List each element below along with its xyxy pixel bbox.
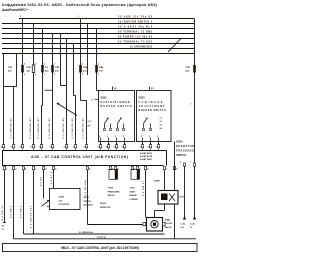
svg-text:Y1B2: Y1B2	[108, 188, 114, 190]
svg-text:4 A1B7 W205: 4 A1B7 W205	[140, 152, 152, 155]
control unit top pin 5 at x66.5	[65, 145, 67, 148]
wire down x194 with arrow	[194, 166, 196, 219]
svg-text:0.5 SW/GE 40: 0.5 SW/GE 40	[29, 118, 32, 139]
power bus line 5	[2, 38, 194, 40]
svg-text:a2 -: a2 -	[160, 121, 164, 123]
interrupt arrow top right	[168, 39, 181, 53]
box1 bottom pin x124.5	[124, 138, 126, 142]
svg-text:9В10 – 97 CAB CONTROL UNIT (p: 9В10 – 97 CAB CONTROL UNIT (p/n JD4 1097…	[61, 246, 139, 250]
svg-text:F1B: F1B	[186, 67, 191, 69]
svg-text:6: 6	[54, 74, 55, 76]
svg-text:4: 4	[98, 63, 99, 66]
solenoid valve Y1B1	[131, 169, 140, 179]
power bus line 8	[2, 53, 194, 55]
control unit bottom pin 9 at x43.5	[42, 167, 44, 170]
svg-text:2nd: 2nd	[59, 200, 64, 202]
box2 rocker contact	[143, 124, 145, 129]
svg-text:1 W: 1 W	[87, 125, 91, 127]
svg-text:Y1B1: Y1B1	[130, 188, 136, 190]
wire drop x3.5	[3, 54, 5, 145]
svg-text:0.5 SW/GE 40: 0.5 SW/GE 40	[37, 118, 40, 139]
valve Y1B2 wires	[110, 168, 112, 170]
svg-text:3: 3	[157, 136, 158, 138]
svg-text:0.5 GE: 0.5 GE	[41, 176, 43, 186]
control unit bottom pin 3 at x13.5	[12, 167, 14, 170]
svg-text:0.5 SW/GE 40a: 0.5 SW/GE 40a	[79, 231, 94, 234]
switch box S1x2 2nd position	[50, 189, 81, 210]
relay K1 box	[158, 191, 178, 205]
wire drop x52.5 (fused)	[52, 34, 54, 145]
wire drop x66.5	[66, 39, 68, 145]
wire drop x42.5 jog to 41.5	[42, 29, 44, 106]
box2 top pin tick	[149, 87, 151, 91]
control unit top pin 2 at x22.5	[21, 145, 23, 148]
switch box S1B2 RADIO/BLOWER ROCKER SWITCH	[99, 91, 135, 142]
control unit A1B top edge	[2, 150, 167, 152]
box1 bottom pin x100.5	[100, 138, 102, 142]
svg-text:2V A-SEAT 40a BL4: 2V A-SEAT 40a BL4	[118, 25, 153, 28]
bottom bus wire y238.8	[14, 238, 197, 240]
control unit bottom pin 7 at x33.5	[32, 167, 34, 170]
svg-text:PRESSURE: PRESSURE	[108, 191, 121, 193]
svg-text:F1B: F1B	[83, 67, 88, 69]
svg-text:F2B: F2B	[27, 67, 32, 69]
svg-text:2: 2	[99, 136, 100, 138]
control unit bottom pin 1 at x132.5	[131, 167, 133, 170]
box1 top pin tick	[112, 87, 114, 91]
wire drop x87.5	[87, 24, 89, 76]
control unit bottom pin 7 at x164.5	[163, 167, 165, 170]
box2 bottom pin x158.5	[158, 138, 160, 142]
switch contact S12	[42, 200, 50, 206]
control unit A1B bottom edge	[2, 165, 164, 167]
box2 bottom pin x150.5	[150, 138, 152, 142]
wire down x87.5 to valve unit	[87, 170, 89, 225]
control unit top pin 6 at x13.5	[12, 145, 14, 148]
fuse F48	[95, 65, 98, 73]
control unit bottom pin 8 at x115.5	[114, 167, 116, 170]
svg-text:3: 3	[141, 136, 142, 138]
svg-text:PACK: PACK	[100, 202, 106, 205]
wire down x13.5	[13, 170, 15, 239]
svg-text:S1B4: S1B4	[176, 139, 183, 143]
svg-text:FAN/MAKE: FAN/MAKE	[139, 101, 163, 104]
box1 left pin tick	[95, 99, 99, 101]
svg-text:5V TERMINAL 75 GE2: 5V TERMINAL 75 GE2	[118, 40, 153, 43]
svg-text:ADJUSTMENT: ADJUSTMENT	[139, 105, 166, 108]
fuse F1B right	[193, 65, 196, 73]
svg-text:FLOOD: FLOOD	[165, 223, 173, 225]
fuse F4	[41, 65, 44, 73]
svg-text:VALVE: VALVE	[165, 226, 173, 229]
svg-text:AutoPowerINFO™: AutoPowerINFO™	[2, 8, 29, 12]
control unit bottom pin 5 at x23.5	[22, 167, 24, 170]
svg-text:0.5 SW/GE 40: 0.5 SW/GE 40	[82, 118, 85, 139]
svg-text:a4 -: a4 -	[160, 127, 164, 130]
box2 bottom pin x142.5	[142, 138, 144, 142]
svg-text:POSITION: POSITION	[59, 204, 70, 206]
motor right pin	[163, 222, 166, 225]
wire drop x60.5	[60, 34, 62, 86]
svg-text:L1 L1: L1 L1	[87, 121, 93, 123]
control unit right edge	[166, 151, 168, 166]
control unit top pin 4 at x108.5	[107, 145, 109, 148]
interrupt arrow mid left	[58, 104, 78, 116]
svg-text:S0MB: S0MB	[154, 180, 160, 182]
control unit bottom pin 6 at x110.5	[109, 167, 111, 170]
wire down x33.5	[33, 170, 35, 234]
svg-text:F4B: F4B	[99, 66, 104, 69]
control unit bottom pin 2 at x53.5	[52, 167, 54, 170]
svg-text:4: 4	[24, 63, 25, 66]
box2 output wire x142.5	[142, 142, 144, 145]
svg-text:30 POWER 12V 40a X4: 30 POWER 12V 40a X4	[118, 35, 153, 38]
wire drop x16 with jog	[16, 54, 18, 87]
wire drop x73.5 jog to 75.5	[73, 44, 75, 96]
power bus line 6	[2, 43, 194, 45]
relay bottom elbow to motor	[164, 204, 166, 211]
box1 rocker contact stub x104.5	[104, 124, 106, 129]
box1 contact terminal x123.5	[123, 129, 125, 131]
svg-text:4 A1B7 W241: 4 A1B7 W241	[140, 158, 152, 161]
control unit top pin 8 at x33.5	[32, 145, 34, 148]
control unit top pin 4 at x3.5	[2, 145, 4, 148]
control unit left edge	[2, 151, 4, 166]
svg-text:15 IGNITION SWITCH 2: 15 IGNITION SWITCH 2	[118, 21, 153, 23]
bottom title bar	[3, 244, 198, 252]
box1 bottom pin x116.5	[116, 138, 118, 142]
box1 output wire x124.5	[124, 142, 126, 145]
box2 contact terminal x150.5	[150, 129, 152, 131]
control unit top pin 2 at x100.5	[99, 145, 101, 148]
box2 output wire x158.5	[158, 142, 160, 145]
control unit top pin 3 at x52.5	[51, 145, 53, 148]
box1 output wire x100.5	[100, 142, 102, 145]
svg-text:3: 3	[20, 16, 21, 18]
svg-text:S1B2: S1B2	[101, 97, 108, 100]
svg-text:30 AKБ 12V 75a X2: 30 AKБ 12V 75a X2	[118, 15, 153, 18]
control unit bottom pin 3 at x137.5	[136, 167, 138, 170]
svg-text:SWITCH: SWITCH	[176, 153, 186, 157]
fuse F3	[51, 65, 54, 73]
wire right fused x194	[194, 19, 196, 164]
wire drop x22.5 (fused)	[22, 19, 24, 145]
svg-text:0.5 SW 2: 0.5 SW 2	[21, 205, 23, 218]
svg-text:6: 6	[82, 74, 83, 76]
svg-text:S1B1: S1B1	[84, 197, 90, 199]
svg-text:0.5 SW/GE 40: 0.5 SW/GE 40	[10, 118, 13, 139]
svg-text:2: 2	[115, 136, 116, 138]
box2 contact terminal x143.5	[143, 129, 145, 131]
operator switch pin squares	[183, 163, 185, 166]
svg-text:VALVE: VALVE	[108, 194, 116, 197]
svg-text:6: 6	[35, 74, 36, 76]
svg-text:0.5 GE 40a: 0.5 GE 40a	[84, 179, 87, 196]
svg-text:0.5 BR 31: 0.5 BR 31	[2, 205, 4, 221]
fuse F28	[21, 65, 24, 73]
box1 output wire x116.5	[116, 142, 118, 145]
relay K1 wires	[164, 170, 166, 191]
wire drop x96.5 fused to box	[96, 29, 98, 91]
wire jog y90	[45, 89, 53, 91]
svg-text:S1B3: S1B3	[139, 97, 146, 100]
svg-text:31 GROUND BUS: 31 GROUND BUS	[130, 46, 152, 48]
svg-text:a3 -: a3 -	[160, 125, 164, 127]
wire down x23.5	[23, 170, 25, 234]
svg-text:4: 4	[54, 63, 55, 66]
svg-text:MONITOR: MONITOR	[100, 207, 111, 209]
svg-text:0.5 SW 2: 0.5 SW 2	[11, 205, 13, 218]
wire down x4.5	[4, 170, 6, 223]
relay bottom wire right	[174, 204, 176, 239]
svg-text:0.5 RT 2: 0.5 RT 2	[51, 171, 53, 184]
control unit top pin 1 at x142.5	[141, 145, 143, 148]
box1 bottom pin x108.5	[108, 138, 110, 142]
box1 output wire x108.5	[108, 142, 110, 145]
svg-text:2.5 RT 30: 2.5 RT 30	[97, 237, 107, 239]
svg-text:5V TERMINAL 15 SW2: 5V TERMINAL 15 SW2	[118, 30, 153, 33]
svg-text:Кофдиамма 9462-54-06; АБ50 - К: Кофдиамма 9462-54-06; АБ50 - Кабельный б…	[2, 3, 158, 7]
box1 rocker contact stub x117.5	[117, 124, 119, 129]
svg-text:0.5 SW/GE 40: 0.5 SW/GE 40	[62, 118, 65, 139]
svg-text:0.5 SW 31: 0.5 SW 31	[143, 180, 145, 196]
svg-text:K1B: K1B	[180, 197, 185, 199]
svg-text:RAISE/: RAISE/	[130, 194, 138, 197]
wire down x53.5 into box	[53, 170, 55, 189]
svg-text:2: 2	[123, 136, 124, 138]
box1 contact terminal x104.5	[104, 129, 106, 131]
control unit top pin 6 at x116.5	[115, 145, 117, 148]
power bus line 4	[2, 33, 194, 35]
svg-text:0.5 SW/GE 40: 0.5 SW/GE 40	[71, 118, 74, 139]
control unit top pin 5 at x158.5	[157, 145, 159, 148]
wire down x43.5	[43, 170, 45, 199]
control unit top pin 8 at x124.5	[123, 145, 125, 148]
motor box A/MD flood valve	[147, 218, 163, 232]
control unit bottom pin 5 at x145.5	[144, 167, 146, 170]
bottom bus wire y234	[24, 233, 165, 235]
control unit bottom pin 9 at x174.5	[173, 167, 175, 170]
svg-text:4: 4	[44, 63, 45, 66]
switch box S1B3 FAN ADJUSTMENT ROCKER SWITCH	[137, 91, 172, 142]
svg-text:6: 6	[24, 74, 25, 76]
control unit top pin 9 at x86.5	[85, 145, 87, 148]
control unit top pin 7 at x75.5	[74, 145, 76, 148]
wire down x145.5 to flood valve top	[145, 170, 147, 218]
box2 output wire x150.5	[150, 142, 152, 145]
wire down x184 with arrow	[184, 166, 186, 219]
svg-text:A/MD: A/MD	[165, 218, 171, 221]
svg-text:0.5 SW/GE 40: 0.5 SW/GE 40	[48, 118, 51, 139]
svg-text:to 4b: to 4b	[190, 223, 196, 226]
svg-text:S1B2: S1B2	[59, 197, 65, 199]
wire drop x33.5 (fused)	[33, 24, 35, 145]
control unit top pin 3 at x150.5	[149, 145, 151, 148]
svg-text:SEAT: SEAT	[130, 190, 136, 193]
svg-text:F3B: F3B	[55, 67, 60, 69]
box1 rocker contact stub x123.5	[123, 124, 125, 129]
motor left pin	[143, 222, 146, 225]
svg-text:ROCKER SWITCH: ROCKER SWITCH	[101, 105, 132, 108]
svg-text:ROCKER SWITCH: ROCKER SWITCH	[139, 109, 166, 112]
svg-text:ACCESS: ACCESS	[84, 204, 94, 207]
box1 rocker contact stub x110.5	[110, 124, 112, 129]
fuse F18	[79, 65, 82, 73]
svg-text:A1B – 97 CAB CONTROL UNIT (A/: A1B – 97 CAB CONTROL UNIT (A/B FUNCTION)	[31, 155, 128, 159]
svg-text:2: 2	[107, 136, 108, 138]
valve Y1B1 wires	[132, 168, 134, 170]
fuse F29	[32, 65, 35, 73]
svg-text:LOWER: LOWER	[130, 199, 139, 201]
svg-text:3: 3	[78, 16, 79, 18]
power bus line 1	[19, 18, 194, 20]
wire drop x80.5 fused jog to 86.5	[80, 19, 82, 101]
svg-text:4: 4	[82, 63, 83, 66]
box1 contact terminal x110.5	[110, 129, 112, 131]
power bus line 2	[2, 23, 194, 25]
power bus line 7	[2, 48, 194, 50]
svg-text:0.5 BR/GE 31c: 0.5 BR/GE 31c	[31, 205, 33, 228]
control unit top pin 1 at x41.5	[40, 145, 42, 148]
svg-text:6: 6	[98, 74, 99, 76]
svg-text:6: 6	[44, 74, 45, 76]
svg-text:RADIO/BLOWER: RADIO/BLOWER	[101, 101, 130, 104]
svg-text:4: 4	[35, 63, 36, 66]
svg-text:PRESENCE: PRESENCE	[176, 148, 194, 152]
svg-text:4 A1B7 W27B: 4 A1B7 W27B	[140, 155, 153, 158]
control unit bottom pin 1 at x4.5	[3, 167, 5, 170]
svg-text:OPERATOR: OPERATOR	[176, 144, 194, 148]
wire box2 to relay x174.5	[174, 142, 176, 191]
power bus line 3	[2, 28, 194, 30]
svg-text:a1 -: a1 -	[160, 118, 164, 120]
svg-text:3: 3	[149, 136, 150, 138]
control unit bottom pin 4 at x87.5	[86, 167, 88, 170]
box1 contact terminal x117.5	[117, 129, 119, 131]
solenoid valve Y1B2	[109, 169, 118, 179]
